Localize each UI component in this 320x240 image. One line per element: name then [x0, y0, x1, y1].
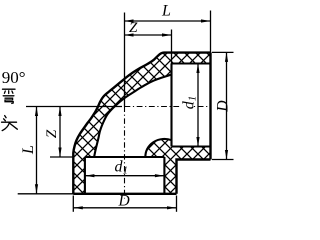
dimension Z left — [59, 106, 61, 157]
extension line: Z right / shoulder — [171, 30, 173, 64]
svg-text:90°: 90° — [2, 68, 26, 87]
dimension d1 right — [197, 64, 199, 147]
outer profile — [73, 53, 210, 194]
dimension D right — [226, 52, 228, 159]
dimension L left — [36, 106, 38, 193]
horizontal centerline — [125, 106, 212, 108]
hanzi wan (drawn) — [3, 89, 16, 103]
right socket bore (white) — [172, 64, 211, 147]
bottom shoulder — [85, 156, 164, 158]
extension line: left horizontal (axis) — [26, 106, 122, 108]
vertical centerline — [124, 107, 126, 199]
right bore top edge — [172, 62, 211, 64]
inner corner arc — [145, 139, 171, 157]
extension line: right D bottom — [212, 159, 234, 161]
bottom bore left edge — [84, 157, 86, 194]
extension line: right D top — [212, 51, 234, 53]
right socket bottom outer — [177, 160, 211, 194]
svg-text:D: D — [118, 193, 130, 210]
svg-text:L: L — [161, 3, 171, 20]
hanzi tou (drawn) — [2, 116, 18, 131]
inner bend curve — [94, 75, 172, 158]
extension line: axis top — [124, 13, 126, 107]
svg-text:L: L — [20, 145, 37, 155]
dimension Z top — [124, 34, 172, 36]
svg-text:Z: Z — [44, 129, 60, 138]
bottom socket bore (white) — [85, 157, 164, 194]
elbow body hatched section — [73, 53, 210, 194]
dimension d1 bottom — [85, 175, 164, 177]
extension line: bottom-left — [18, 193, 74, 195]
extension line: mouth top — [210, 11, 212, 53]
right mouth face — [209, 52, 211, 159]
right bore bottom edge — [172, 145, 211, 147]
extension line: bottom D right — [176, 196, 178, 212]
dimension D bottom — [73, 207, 176, 209]
bottom bore right edge — [163, 157, 165, 194]
right shoulder — [170, 64, 172, 147]
bottom mouth face — [73, 193, 176, 195]
extension line: Z left bottom (shoulder level) — [50, 156, 72, 158]
svg-text:D: D — [215, 100, 232, 112]
label d1 right — [181, 96, 195, 114]
bend channel (white) — [94, 75, 172, 158]
dimension L top — [124, 20, 211, 22]
extension line: bottom D left — [72, 196, 74, 212]
svg-text:Z: Z — [129, 20, 138, 36]
